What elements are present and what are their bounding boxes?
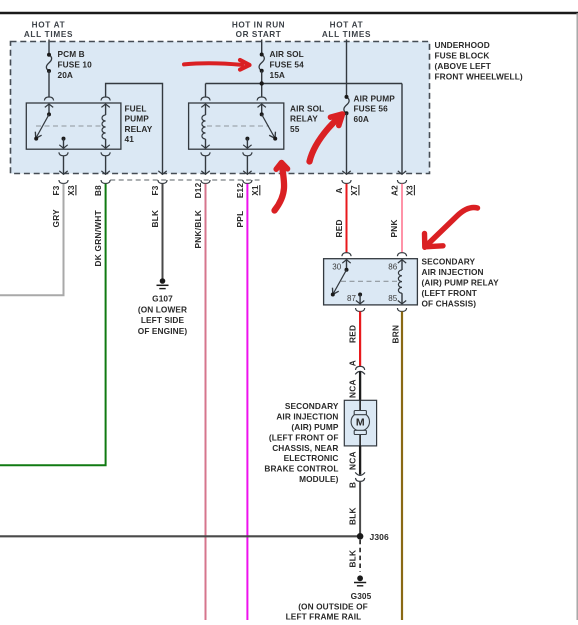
wire BLK NCA (connector to pump)	[359, 371, 361, 400]
underhood fuse block outline	[11, 42, 430, 174]
AIR pump relay label	[422, 257, 500, 309]
svg-text:HOT AT: HOT AT	[32, 21, 66, 30]
AIR pump motor symbol M	[351, 411, 369, 435]
svg-text:FUSE 54: FUSE 54	[270, 59, 305, 69]
svg-text:FUSE BLOCK: FUSE BLOCK	[435, 51, 490, 61]
svg-text:FUEL: FUEL	[125, 103, 147, 113]
annotation arrow 3 (to relay 55)	[275, 163, 288, 211]
svg-text:NCA: NCA	[348, 451, 358, 470]
connector pin F3 at x63	[52, 171, 76, 196]
connector pin D12 at x205	[194, 171, 210, 198]
svg-text:X7: X7	[350, 185, 359, 196]
svg-text:(AIR) PUMP: (AIR) PUMP	[291, 422, 338, 432]
AIR pump relay pin 30 connector	[342, 253, 351, 270]
svg-text:ELECTRONIC: ELECTRONIC	[284, 453, 339, 463]
svg-text:BLK: BLK	[348, 507, 358, 525]
label fuse 54	[270, 49, 305, 80]
power label HOT IN RUN OR START	[232, 21, 285, 40]
svg-text:(LEFT FRONT OF: (LEFT FRONT OF	[269, 432, 339, 442]
wire BLK NCA (pump to connector B)	[359, 446, 361, 475]
power label HOT AT ALL TIMES (right)	[322, 21, 371, 40]
wire BLK (connector B to splice J306)	[359, 481, 361, 536]
inline connector B	[355, 472, 365, 481]
annotation arrow 1 (to fuse 54)	[184, 60, 250, 70]
svg-text:B: B	[348, 482, 358, 488]
splice J306	[357, 533, 364, 540]
svg-text:AIR SOL: AIR SOL	[290, 103, 324, 113]
label fuse 10	[58, 49, 93, 80]
svg-text:BRAKE CONTROL: BRAKE CONTROL	[264, 464, 338, 474]
svg-text:AIR SOL: AIR SOL	[270, 49, 304, 59]
svg-text:RELAY: RELAY	[125, 124, 153, 134]
svg-text:F3: F3	[52, 185, 61, 195]
svg-text:RELAY: RELAY	[290, 114, 318, 124]
relay 41 switch pin connector (top)	[44, 97, 53, 114]
connector pin A at x346	[335, 171, 359, 196]
relay 41 label	[125, 103, 153, 144]
svg-text:AIR INJECTION: AIR INJECTION	[422, 267, 484, 277]
svg-text:F3: F3	[151, 185, 160, 195]
svg-text:(LEFT FRONT: (LEFT FRONT	[422, 288, 477, 298]
svg-text:BLK: BLK	[348, 550, 358, 568]
svg-text:X3: X3	[67, 185, 76, 196]
svg-text:PNK: PNK	[389, 219, 399, 237]
inline connector A/NCA	[355, 366, 365, 374]
svg-text:MODULE): MODULE)	[299, 474, 339, 484]
svg-text:LEFT SIDE: LEFT SIDE	[141, 315, 185, 325]
relay 55 switch	[260, 112, 278, 140]
annotation arrow 4 (to AIR pump relay)	[425, 208, 478, 248]
relay 41 bisector dashed line	[36, 125, 102, 127]
wire PNK (A2/X3 to relay pin 86)	[401, 184, 403, 253]
relay 55 coil	[201, 97, 210, 174]
svg-text:PPL: PPL	[235, 211, 245, 228]
wire BLK (F3 to G107)	[162, 184, 164, 279]
svg-text:85: 85	[388, 294, 398, 303]
svg-text:(ON LOWER: (ON LOWER	[138, 304, 187, 314]
svg-text:G107: G107	[152, 294, 173, 304]
svg-text:X3: X3	[405, 185, 414, 196]
connector pin F3 at x162	[151, 171, 167, 196]
fuse block connector row dashed link	[110, 179, 259, 181]
svg-text:ALL TIMES: ALL TIMES	[24, 30, 73, 39]
svg-text:(AIR) PUMP RELAY: (AIR) PUMP RELAY	[422, 278, 500, 288]
fuse AIR PUMP FUSE 56 60A	[344, 95, 349, 174]
wire RED (A/X7 to relay pin 30)	[346, 184, 348, 253]
connector pin E12 at x247	[236, 171, 260, 198]
underhood fuse block label	[435, 40, 523, 81]
svg-text:PNK/BLK: PNK/BLK	[193, 210, 203, 249]
relay 55 common pin (bottom center)	[243, 137, 252, 174]
AIR pump label	[264, 401, 338, 484]
svg-text:DK GRN/WHT: DK GRN/WHT	[93, 210, 103, 266]
svg-text:GRY: GRY	[51, 209, 61, 228]
relay 55 switch pin connector (top)	[257, 97, 266, 114]
relay 41 common pin (bottom center)	[59, 137, 68, 174]
relay 55 label	[290, 103, 324, 133]
wire: hot feed to PCM B fuse	[48, 40, 50, 55]
power label HOT AT ALL TIMES (left)	[24, 21, 73, 40]
svg-text:SECONDARY: SECONDARY	[422, 257, 476, 267]
svg-text:RED: RED	[348, 325, 358, 343]
svg-text:A: A	[335, 187, 344, 193]
AIR pump motor wire through	[359, 400, 361, 412]
svg-text:NCA: NCA	[348, 379, 358, 398]
svg-text:30: 30	[332, 262, 342, 271]
svg-text:A2: A2	[391, 185, 400, 196]
svg-text:FRONT WHEELWELL): FRONT WHEELWELL)	[435, 71, 523, 81]
svg-text:BRN: BRN	[390, 325, 400, 344]
AIR pump motor box	[344, 400, 376, 446]
svg-text:60A: 60A	[354, 114, 370, 124]
svg-text:87: 87	[347, 294, 357, 303]
wire to left edge at J306	[0, 535, 357, 537]
wire: hot feed to AIR PUMP fuse	[346, 40, 348, 97]
AIR pump relay switch	[331, 268, 349, 297]
svg-text:CHASSIS, NEAR: CHASSIS, NEAR	[272, 443, 338, 453]
svg-text:M: M	[356, 416, 365, 428]
relay 41 box	[26, 103, 121, 149]
label G305	[286, 591, 372, 622]
svg-text:86: 86	[388, 262, 398, 271]
wire BLK dashed (J306 to G305)	[359, 540, 361, 572]
svg-text:OF CHASSIS): OF CHASSIS)	[422, 298, 477, 308]
svg-text:41: 41	[125, 134, 135, 144]
AIR pump relay box	[324, 259, 418, 305]
svg-text:55: 55	[290, 124, 300, 134]
annotation arrow 2 (to fuse 56)	[310, 114, 343, 162]
fuse AIR SOL FUSE 54 15A	[259, 53, 264, 98]
relay 41 switch	[34, 112, 51, 140]
svg-text:PUMP: PUMP	[125, 114, 150, 124]
svg-text:E12: E12	[236, 183, 245, 199]
svg-text:PCM B: PCM B	[58, 49, 85, 59]
svg-text:D12: D12	[194, 182, 203, 198]
svg-text:(ABOVE LEFT: (ABOVE LEFT	[435, 61, 491, 71]
svg-text:X1: X1	[251, 185, 260, 196]
svg-text:OR START: OR START	[236, 30, 282, 39]
relay 41 coil	[101, 97, 110, 174]
svg-text:SECONDARY: SECONDARY	[285, 401, 339, 411]
svg-text:UNDERHOOD: UNDERHOOD	[435, 40, 490, 50]
svg-text:G305: G305	[351, 591, 372, 601]
connector pin A2 at x402	[391, 171, 415, 196]
wire DK GRN/WHT (B8 to left edge)	[0, 184, 106, 466]
svg-text:15A: 15A	[270, 70, 286, 80]
AIR pump relay pin 87	[356, 293, 365, 312]
wire BRN (pin 85 down)	[401, 312, 403, 621]
wire: relay 41 coil feed from bus y84	[106, 84, 163, 174]
relay 55 bisector dashed line	[207, 125, 269, 127]
wire: bus from fuse 54 to relay 55 and X3	[206, 84, 403, 174]
svg-text:20A: 20A	[58, 70, 74, 80]
wire PPL (E12/X1 down)	[246, 184, 248, 620]
svg-text:OF ENGINE): OF ENGINE)	[138, 326, 188, 336]
wire RED (pin 87 to connector A)	[359, 312, 361, 367]
wire: hot in run feed to AIR SOL fuse	[261, 40, 263, 55]
fuse PCM B FUSE 10 20A	[46, 53, 51, 97]
wire GRY (F3/X3 to left edge)	[0, 184, 64, 296]
ground G107	[157, 278, 169, 288]
svg-text:FUSE 56: FUSE 56	[354, 104, 389, 114]
label fuse 56	[354, 93, 396, 124]
svg-text:RED: RED	[334, 219, 344, 237]
wire PNK/BLK (D12 down)	[205, 184, 207, 620]
svg-text:FUSE 10: FUSE 10	[58, 59, 93, 69]
svg-text:J306: J306	[370, 532, 389, 542]
junction node at fuse 54 output	[260, 81, 264, 85]
svg-text:AIR INJECTION: AIR INJECTION	[276, 411, 338, 421]
svg-text:LEFT FRAME RAIL: LEFT FRAME RAIL	[286, 612, 362, 620]
relay 55 box	[189, 103, 284, 149]
svg-text:HOT IN RUN: HOT IN RUN	[232, 21, 285, 30]
AIR pump relay coil (86-85)	[397, 253, 406, 312]
svg-text:ALL TIMES: ALL TIMES	[322, 30, 371, 39]
svg-text:HOT AT: HOT AT	[330, 21, 364, 30]
label G107	[138, 294, 188, 336]
svg-text:A: A	[348, 360, 358, 366]
svg-text:(ON OUTSIDE OF: (ON OUTSIDE OF	[298, 602, 368, 612]
svg-text:AIR PUMP: AIR PUMP	[354, 93, 396, 103]
ground G305	[354, 575, 366, 585]
svg-text:B8: B8	[94, 185, 103, 196]
connector pin B8 at x105	[94, 171, 110, 196]
AIR pump relay bisector dashed line	[341, 280, 397, 282]
svg-text:BLK: BLK	[150, 210, 160, 228]
